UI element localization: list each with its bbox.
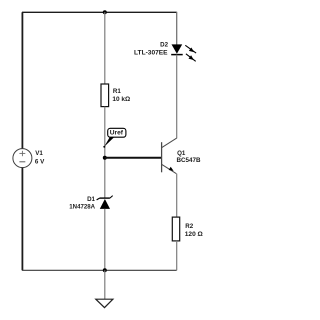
wire left branch lower (V1 negative lead) <box>21 168 23 271</box>
wire collector (D2 cathode to Q1 collector) <box>176 55 178 139</box>
svg-text:6 V: 6 V <box>35 158 45 165</box>
wire ground stub <box>104 270 106 299</box>
LED light arrow 1 <box>185 45 196 53</box>
node junction bottom (middle branch to bottom rail) <box>103 268 107 272</box>
svg-text:V1: V1 <box>35 150 43 157</box>
diode D1 (zener) <box>97 196 113 209</box>
svg-text:BC547B: BC547B <box>177 157 202 164</box>
node junction base (middle branch to base wire) <box>103 156 107 160</box>
resistor R1 <box>101 84 109 107</box>
svg-text:10 kΩ: 10 kΩ <box>112 96 130 103</box>
wire left branch upper (V1 positive lead) <box>21 12 23 149</box>
transistor Q1 <box>161 138 176 174</box>
svg-text:R2: R2 <box>185 223 193 230</box>
wire middle branch mid (R1 to D1) <box>104 107 106 199</box>
wire top rail <box>22 11 177 13</box>
resistor R2 <box>172 217 179 241</box>
svg-text:Uref: Uref <box>110 129 124 136</box>
wire middle branch upper (R1 top lead) <box>104 12 106 84</box>
svg-text:R1: R1 <box>113 88 121 95</box>
node label Uref callout <box>103 128 126 147</box>
svg-text:D2: D2 <box>160 42 168 49</box>
wire right branch bottom (R2 to bottom rail) <box>176 241 178 270</box>
wire right branch top (D2 anode lead) <box>176 12 178 45</box>
ground <box>96 299 113 307</box>
svg-text:120 Ω: 120 Ω <box>185 231 203 238</box>
svg-text:D1: D1 <box>87 196 95 203</box>
svg-text:LTL-307EE: LTL-307EE <box>134 50 168 57</box>
wire emitter (Q1 emitter to R2) <box>176 174 178 217</box>
LED light arrow 2 <box>186 54 196 62</box>
svg-text:Q1: Q1 <box>177 150 186 157</box>
wire bottom rail <box>22 269 177 271</box>
voltage source V1 <box>13 149 32 168</box>
node junction top (middle branch to top rail) <box>103 10 107 14</box>
wire base (node to Q1 base) <box>105 157 162 159</box>
svg-text:1N4728A: 1N4728A <box>69 204 95 211</box>
wire middle branch lower (D1 to bottom rail) <box>104 209 106 270</box>
LED D2 <box>171 44 183 54</box>
